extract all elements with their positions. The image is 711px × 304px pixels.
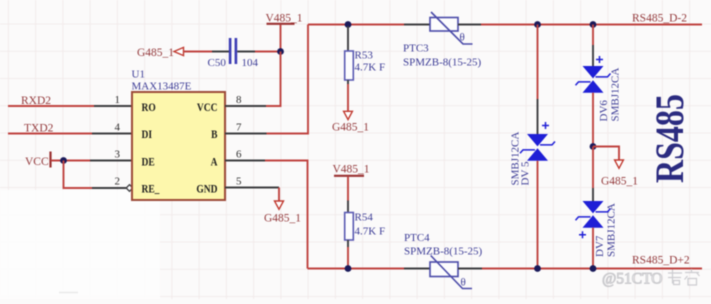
svg-text:7: 7	[236, 122, 242, 134]
junction top rail DV6	[590, 21, 597, 28]
resistor R53	[345, 51, 354, 80]
svg-text:3: 3	[115, 149, 121, 161]
wire junction down to DV7	[592, 147, 594, 202]
pin name DI	[142, 128, 153, 141]
wire rail down to DV5	[537, 25, 539, 135]
power port G485_1 under R53	[332, 111, 369, 133]
svg-text:RO: RO	[142, 101, 156, 114]
svg-text:θ: θ	[460, 32, 465, 44]
svg-text:VCC: VCC	[197, 101, 218, 114]
pin name RE_	[142, 183, 160, 196]
wire DV6 down to junction	[592, 93, 594, 147]
wire DV7 down to bottom rail	[592, 228, 594, 269]
wire rail to R53	[347, 26, 349, 51]
svg-text:TXD2: TXD2	[24, 123, 54, 135]
wire V485_1 down	[280, 25, 282, 52]
svg-text:SPMZB-8(15-25): SPMZB-8(15-25)	[404, 246, 483, 258]
svg-text:PTC4: PTC4	[404, 232, 430, 244]
pin name A	[211, 155, 218, 168]
svg-text:1: 1	[115, 94, 121, 106]
pin name RO	[142, 101, 156, 114]
svg-text:θ: θ	[461, 277, 466, 289]
svg-text:@51CTO: @51CTO	[602, 271, 663, 288]
svg-text:VCC: VCC	[25, 156, 49, 168]
wire pin7 B up to top rail	[267, 25, 309, 134]
svg-text:DV7: DV7	[594, 235, 606, 257]
capacitor C50	[229, 38, 237, 64]
power port G485_1 right	[601, 160, 638, 188]
TVS diode DV5	[520, 122, 555, 161]
junction bottom rail DV5	[534, 265, 541, 272]
wire C50 to junction	[237, 51, 280, 53]
wire rail to PTC3	[404, 24, 430, 26]
power port V485_1 above R54	[333, 164, 370, 176]
stray mark bottom left	[59, 292, 78, 294]
resistor R54	[345, 213, 354, 241]
pin name VCC	[197, 101, 218, 114]
svg-text:MAX13487E: MAX13487E	[132, 81, 192, 93]
wire PTC4 right	[458, 268, 482, 270]
wire VCC to pin2	[64, 161, 127, 189]
power port G485_1 under pin5	[264, 201, 301, 225]
svg-text:SMBJ12CA: SMBJ12CA	[606, 203, 618, 257]
pin name B	[211, 128, 217, 141]
svg-text:RS485_D-2: RS485_D-2	[632, 13, 687, 25]
svg-text:8: 8	[236, 94, 242, 106]
wire G485_1 to C50	[184, 51, 230, 53]
svg-text:G485_1: G485_1	[601, 176, 638, 188]
svg-text:4.7K F: 4.7K F	[355, 62, 386, 74]
power port G485_1 left of C50	[137, 47, 184, 59]
svg-text:G485_1: G485_1	[137, 47, 174, 59]
wire R53 down	[347, 80, 349, 111]
svg-text:B: B	[211, 128, 217, 141]
svg-text:U1: U1	[132, 69, 145, 81]
wire rail down to DV6	[592, 25, 594, 67]
wire VCC to pin3	[51, 160, 132, 162]
junction C50/V485	[277, 48, 284, 55]
junction top rail DV5	[534, 21, 541, 28]
PTC3 thermistor	[430, 12, 473, 44]
svg-text:2: 2	[115, 176, 121, 188]
svg-text:DE: DE	[142, 155, 155, 168]
svg-text:RS485_D+2: RS485_D+2	[632, 255, 690, 267]
svg-text:RE_: RE_	[142, 183, 160, 196]
svg-text:G485_1: G485_1	[264, 213, 301, 225]
TVS diode DV6	[576, 56, 611, 93]
wire pin5 GND down	[278, 188, 280, 202]
wire RXD2	[8, 105, 132, 107]
svg-text:6: 6	[236, 149, 242, 161]
wire PTC3 right	[458, 24, 481, 26]
svg-text:R54: R54	[355, 212, 374, 224]
wire pin6 stub	[225, 160, 265, 162]
svg-text:5: 5	[236, 176, 242, 188]
junction VCC	[60, 157, 67, 164]
svg-text:A: A	[211, 155, 218, 168]
wire junction to G485_1 stub	[593, 147, 619, 161]
wire rail to PTC4	[404, 268, 430, 270]
power port VCC	[25, 152, 51, 169]
pin name GND	[196, 183, 217, 196]
svg-text:SMBJ12CA: SMBJ12CA	[510, 132, 522, 186]
svg-text:DI: DI	[142, 128, 153, 141]
wire R54 down to bottom rail	[347, 240, 349, 269]
power port V485_1 top	[266, 13, 303, 25]
svg-text:SMBJ12CA: SMBJ12CA	[610, 68, 622, 122]
wire pin7 stub	[225, 133, 267, 135]
TVS diode DV7	[576, 201, 611, 238]
svg-text:RXD2: RXD2	[21, 95, 51, 107]
junction bottom rail R54	[345, 265, 352, 272]
wire junction down to pin8	[266, 52, 281, 107]
wire DV5 down to bottom rail	[537, 161, 539, 269]
svg-text:V485_1: V485_1	[333, 164, 370, 176]
pin name DE	[142, 155, 155, 168]
wire pin6 A down to bottom rail	[265, 161, 308, 269]
wire V485_1 down to R54	[347, 177, 349, 213]
pin2 inversion bubble	[126, 185, 133, 192]
wire pin5 stub	[225, 187, 279, 189]
wire top rail RS485_D-2	[308, 24, 702, 26]
svg-text:4: 4	[115, 122, 121, 134]
wire TXD2	[8, 133, 132, 135]
junction bottom rail DV7	[590, 265, 597, 272]
op-amp U1 body MAX13487E	[132, 92, 225, 200]
svg-text:DV6: DV6	[598, 100, 610, 122]
svg-text:SPMZB-8(15-25): SPMZB-8(15-25)	[403, 57, 482, 69]
svg-text:G485_1: G485_1	[332, 122, 369, 134]
junction top rail R53	[345, 21, 352, 28]
svg-text:C50: C50	[208, 57, 227, 69]
svg-text:GND: GND	[196, 183, 217, 196]
svg-text:R53: R53	[355, 50, 374, 62]
junction DV6/DV7	[590, 143, 597, 150]
wire bottom rail RS485_D+2	[308, 268, 703, 270]
watermark @51CTO	[602, 269, 700, 288]
PTC4 thermistor	[430, 256, 472, 289]
svg-text:104: 104	[242, 57, 259, 69]
wire pin8 stub	[225, 105, 266, 107]
svg-text:RS485: RS485	[648, 94, 692, 183]
svg-text:PTC3: PTC3	[403, 43, 429, 55]
svg-text:4.7K F: 4.7K F	[355, 226, 386, 238]
